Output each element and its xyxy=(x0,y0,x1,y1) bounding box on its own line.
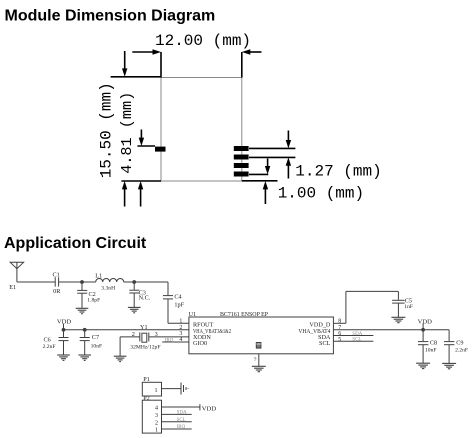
svg-text:SCL: SCL xyxy=(319,340,331,347)
svg-text:0R: 0R xyxy=(53,288,61,295)
svg-text:IRQ: IRQ xyxy=(177,425,186,430)
svg-text:Application Circuit: Application Circuit xyxy=(4,235,147,252)
svg-text:IRQ: IRQ xyxy=(165,338,174,343)
svg-text:3: 3 xyxy=(155,331,158,338)
svg-text:5: 5 xyxy=(338,337,341,343)
svg-text:1.27 (mm): 1.27 (mm) xyxy=(295,162,381,180)
svg-text:10nF: 10nF xyxy=(91,343,103,349)
svg-text:VDD: VDD xyxy=(202,405,217,412)
svg-text:C1: C1 xyxy=(53,271,60,278)
svg-text:1: 1 xyxy=(155,388,158,394)
svg-text:C4: C4 xyxy=(174,294,181,301)
svg-text:SCL: SCL xyxy=(352,338,361,343)
svg-text:2: 2 xyxy=(132,331,135,338)
svg-text:C6: C6 xyxy=(44,337,51,344)
svg-text:1.8pF: 1.8pF xyxy=(87,298,100,304)
svg-text:VDD: VDD xyxy=(57,319,72,326)
svg-text:1: 1 xyxy=(155,428,158,434)
svg-text:L1: L1 xyxy=(95,272,102,279)
svg-text:C8: C8 xyxy=(430,340,437,347)
svg-text:U1: U1 xyxy=(189,311,197,318)
svg-text:Module Dimension Diagram: Module Dimension Diagram xyxy=(5,8,216,25)
svg-text:2.2nF: 2.2nF xyxy=(455,347,468,353)
svg-text:15.50 (mm): 15.50 (mm) xyxy=(98,82,116,178)
svg-text:1.00 (mm): 1.00 (mm) xyxy=(278,184,364,202)
svg-text:1nF: 1nF xyxy=(404,304,413,310)
svg-text:7: 7 xyxy=(338,325,341,331)
svg-text:P1: P1 xyxy=(143,376,150,383)
svg-text:3.3nH: 3.3nH xyxy=(101,285,115,291)
svg-text:SDA: SDA xyxy=(177,411,187,416)
svg-text:Y1: Y1 xyxy=(140,324,148,331)
svg-text:4.81 (mm): 4.81 (mm) xyxy=(118,92,136,174)
svg-text:2: 2 xyxy=(179,325,182,331)
svg-text:10nF: 10nF xyxy=(425,347,437,353)
svg-text:E1: E1 xyxy=(9,284,16,291)
svg-text:1: 1 xyxy=(179,318,182,324)
svg-text:P2: P2 xyxy=(143,395,150,402)
svg-text:C7: C7 xyxy=(92,334,99,341)
svg-text:2.2nF: 2.2nF xyxy=(43,344,56,350)
svg-text:SCL: SCL xyxy=(177,418,186,423)
svg-text:4: 4 xyxy=(155,406,158,412)
svg-text:8: 8 xyxy=(338,318,341,324)
svg-text:2: 2 xyxy=(155,420,158,426)
svg-text:VDD: VDD xyxy=(418,318,433,325)
svg-text:32MHz/12pF: 32MHz/12pF xyxy=(130,345,160,351)
svg-text:BC7161 ENSOP EP: BC7161 ENSOP EP xyxy=(220,311,269,318)
svg-text:1pF: 1pF xyxy=(174,302,184,309)
svg-text:SDA: SDA xyxy=(352,332,362,337)
svg-text:4: 4 xyxy=(179,337,182,343)
svg-text:9: 9 xyxy=(254,358,257,363)
svg-text:3: 3 xyxy=(155,413,158,419)
svg-text:C9: C9 xyxy=(456,340,463,347)
svg-text:N.C.: N.C. xyxy=(139,294,151,301)
svg-text:12.00 (mm): 12.00 (mm) xyxy=(155,32,251,50)
svg-text:GIO0: GIO0 xyxy=(193,340,207,347)
